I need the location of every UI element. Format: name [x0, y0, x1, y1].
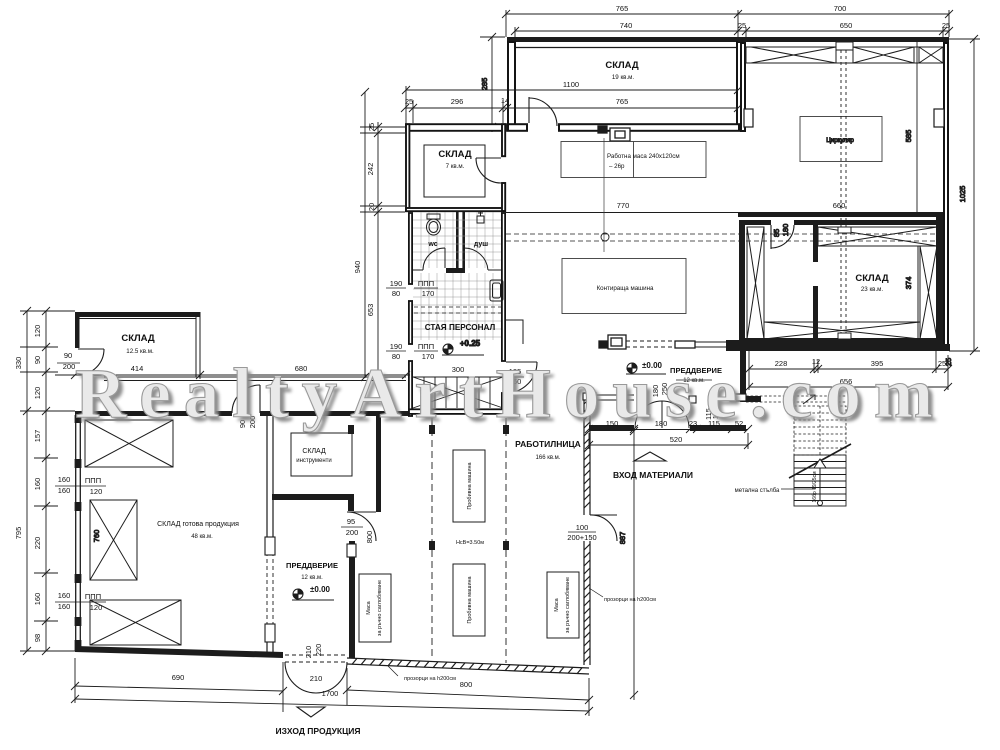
svg-text:СКЛАД: СКЛАД: [855, 273, 889, 284]
svg-text:120: 120: [90, 603, 103, 612]
svg-text:220: 220: [33, 537, 42, 550]
svg-text:95: 95: [347, 517, 355, 526]
svg-text:ППП: ППП: [418, 279, 434, 288]
svg-text:160: 160: [33, 478, 42, 491]
svg-text:ППП: ППП: [85, 476, 101, 485]
dims under vestibule door: [585, 425, 752, 449]
svg-text:1700: 1700: [322, 689, 339, 698]
svg-text:+0.25: +0.25: [460, 339, 481, 348]
room SKLAD7 walls: [406, 124, 506, 211]
big opening bottom staff room: [413, 377, 503, 408]
dim 285 vertical: [480, 33, 505, 132]
svg-text:650: 650: [840, 21, 853, 30]
svg-text:Работна маса 240х120см: Работна маса 240х120см: [607, 153, 680, 160]
svg-text:200: 200: [346, 528, 359, 537]
door sklad23: [771, 225, 794, 249]
svg-text:770: 770: [617, 201, 630, 210]
svg-text:200+150: 200+150: [567, 533, 596, 542]
svg-text:166 кв.м.: 166 кв.м.: [536, 455, 561, 461]
svg-text:330: 330: [14, 357, 23, 370]
svg-text:80: 80: [392, 289, 400, 298]
svg-text:25: 25: [738, 21, 746, 30]
svg-text:wc: wc: [427, 241, 437, 248]
hall sw step: [506, 320, 523, 344]
svg-text:16бр 19/25см: 16бр 19/25см: [812, 471, 818, 503]
svg-text:±0.00: ±0.00: [310, 585, 331, 594]
dims under sklad23: [745, 351, 952, 391]
corridor bottom thick wall: [75, 411, 408, 416]
door sklad19: [529, 97, 557, 126]
right building top walls: [738, 37, 949, 217]
door tools room: [347, 512, 376, 541]
svg-text:ВХОД МАТЕРИАЛИ: ВХОД МАТЕРИАЛИ: [613, 470, 693, 480]
svg-text:за ръчно саглобяване: за ръчно саглобяване: [565, 577, 571, 633]
big store room walls: [76, 416, 81, 650]
svg-text:157: 157: [33, 430, 42, 443]
dim 1025: [949, 35, 980, 355]
svg-text:РАБОТИЛНИЦА: РАБОТИЛНИЦА: [515, 439, 581, 449]
exit doorway bottom: [285, 655, 347, 662]
svg-text:RealtyArtHouse.com: RealtyArtHouse.com: [75, 355, 933, 433]
room SKLAD19 walls: [507, 37, 740, 42]
dim 585: [916, 42, 918, 212]
svg-text:25: 25: [938, 359, 946, 368]
svg-text:Маса: Маса: [366, 600, 372, 614]
svg-text:Пробивна машина: Пробивна машина: [467, 461, 473, 509]
svg-text:ППП: ППП: [418, 342, 434, 351]
svg-text:800: 800: [365, 531, 374, 544]
svg-text:90: 90: [64, 351, 72, 360]
workshop right door 100: [590, 515, 617, 541]
svg-text:1025: 1025: [958, 186, 967, 203]
svg-text:СТАЯ ПЕРСОНАЛ: СТАЯ ПЕРСОНАЛ: [425, 323, 496, 332]
room SKLAD12.5: [75, 312, 200, 348]
svg-text:887: 887: [618, 532, 627, 545]
svg-text:760: 760: [92, 530, 101, 543]
SKLAD23 block: [726, 220, 950, 351]
svg-text:160: 160: [58, 602, 71, 611]
hall center axis dashed: [603, 138, 605, 252]
svg-text:765: 765: [616, 4, 629, 13]
svg-text:ИЗХОД ПРОДУКЦИЯ: ИЗХОД ПРОДУКЦИЯ: [275, 726, 360, 736]
svg-text:374: 374: [904, 277, 913, 290]
door sklad12.5: [78, 349, 104, 375]
X columns sklad23: [747, 227, 937, 339]
svg-text:160: 160: [58, 591, 71, 600]
svg-text:120: 120: [33, 387, 42, 400]
corridor dim line 414 680: [55, 360, 410, 379]
svg-text:653: 653: [366, 304, 375, 317]
svg-text:25: 25: [367, 123, 376, 131]
bottom dims: [71, 658, 593, 716]
tools room: [272, 416, 381, 512]
top dimension row: [502, 10, 953, 42]
svg-text:765: 765: [616, 97, 629, 106]
window note texts: [404, 597, 656, 682]
svg-text:25: 25: [942, 21, 950, 30]
window dim labels PPP 170: [390, 279, 435, 361]
vestibule right walls: [740, 351, 761, 402]
svg-text:190: 190: [390, 342, 403, 351]
svg-text:296: 296: [451, 97, 464, 106]
svg-text:100: 100: [576, 523, 589, 532]
svg-text:700: 700: [834, 4, 847, 13]
svg-text:12 кв.м.: 12 кв.м.: [301, 575, 323, 581]
workshop top wall to vestibule: [595, 395, 634, 400]
svg-text:800: 800: [460, 680, 473, 689]
wc fixtures: [427, 212, 504, 301]
svg-text:220: 220: [314, 644, 323, 657]
X storage boxes: [85, 420, 181, 645]
svg-text:СКЛАД: СКЛАД: [302, 448, 326, 455]
svg-text:СКЛАД: СКЛАД: [121, 333, 155, 344]
center dashed axis right building: [841, 50, 846, 338]
svg-text:160: 160: [33, 593, 42, 606]
svg-text:СКЛАД: СКЛАД: [438, 149, 472, 160]
machine symbols on wall: [598, 126, 630, 141]
svg-text:170: 170: [422, 289, 435, 298]
right vestibule labels: [642, 361, 722, 384]
svg-text:98: 98: [33, 634, 42, 642]
svg-text:160: 160: [58, 486, 71, 495]
exit arrow bottom: [297, 707, 325, 717]
machine tables workshop: [359, 450, 579, 642]
stairs: [746, 396, 846, 455]
svg-text:14: 14: [501, 96, 509, 105]
workshop room: [456, 439, 581, 546]
svg-text:за ръчно саглобяване: за ръчно саглобяване: [377, 580, 383, 636]
workshop dashed axes: [432, 418, 506, 663]
dashed beam lines staff room: [414, 307, 501, 313]
svg-text:Контираща машина: Контираща машина: [597, 285, 654, 292]
svg-text:СКЛАД готова продукция: СКЛАД готова продукция: [157, 521, 239, 528]
workshop right wall with windows: [583, 393, 596, 665]
svg-text:прозорци на h200см: прозорци на h200см: [604, 597, 656, 603]
conveyor machines bottom of hall: [599, 335, 626, 349]
door corridor to tools room: [232, 385, 260, 413]
svg-text:20: 20: [367, 203, 376, 211]
svg-text:285: 285: [480, 78, 489, 91]
svg-text:23 кв.м.: 23 кв.м.: [861, 286, 884, 293]
svg-text:7 кв.м.: 7 кв.м.: [446, 163, 465, 170]
svg-text:120: 120: [90, 487, 103, 496]
svg-text:12.5 кв.м.: 12.5 кв.м.: [126, 348, 154, 355]
svg-text:690: 690: [172, 673, 185, 682]
svg-text:НсВ=3.50м: НсВ=3.50м: [456, 540, 484, 546]
left outer dim column: [20, 307, 75, 655]
svg-text:585: 585: [904, 130, 913, 143]
svg-text:160: 160: [58, 475, 71, 484]
svg-text:190: 190: [390, 279, 403, 288]
svg-text:душ: душ: [474, 241, 488, 248]
svg-text:Пробивна машина: Пробивна машина: [467, 575, 473, 623]
svg-text:прозорци на h200см: прозорци на h200см: [404, 676, 456, 682]
svg-text:85: 85: [772, 229, 781, 237]
workshop south sloped wall: [347, 658, 589, 674]
corridor thin walls: [104, 377, 406, 381]
svg-text:СКЛАД: СКЛАД: [605, 60, 639, 71]
dim 1100: [401, 86, 742, 127]
wc floor tile grid: [413, 212, 501, 340]
dim 887: [633, 431, 635, 700]
window band with X top: [744, 42, 944, 127]
svg-text:1100: 1100: [563, 80, 579, 89]
svg-text:метална стълба: метална стълба: [735, 488, 780, 494]
level mark +0.25: [442, 344, 484, 355]
dim labels top: [616, 4, 950, 30]
left vestibule: [349, 541, 355, 658]
double swing door 180: [635, 401, 689, 428]
entry arrow: [634, 452, 666, 461]
svg-text:Циркуляр: Циркуляр: [826, 137, 854, 144]
svg-text:120: 120: [33, 325, 42, 338]
svg-text:210: 210: [310, 674, 323, 683]
wc doors: [413, 248, 501, 270]
svg-text:Маса: Маса: [554, 597, 560, 611]
svg-text:660: 660: [833, 201, 846, 210]
svg-text:– 26р: – 26р: [609, 163, 625, 170]
svg-text:242: 242: [366, 163, 375, 176]
work hall center dashed tables: [561, 142, 706, 314]
dim 770 and 660 line: [506, 212, 738, 214]
right wall of big store room (to vestibule): [267, 416, 273, 652]
tsirkular dashed machine: [800, 117, 882, 162]
south wall of hall / vestibule top: [675, 341, 726, 348]
door staff to vestibule: [506, 362, 537, 393]
svg-text:19 кв.м.: 19 кв.м.: [612, 74, 635, 81]
svg-text:740: 740: [620, 21, 633, 30]
svg-text:ППП: ППП: [85, 592, 101, 601]
svg-text:ПРЕДДВЕРИЕ: ПРЕДДВЕРИЕ: [286, 561, 338, 570]
svg-text:210: 210: [304, 646, 313, 659]
svg-text:48 кв.м.: 48 кв.м.: [191, 534, 213, 540]
svg-text:90: 90: [33, 356, 42, 364]
svg-text:25: 25: [405, 97, 413, 106]
svg-text:940: 940: [353, 261, 362, 274]
left vertical dims 940 653 242: [360, 88, 405, 381]
svg-text:инструменти: инструменти: [296, 458, 332, 464]
staff room block walls: [409, 213, 505, 416]
door sklad7: [476, 158, 501, 183]
svg-text:795: 795: [14, 527, 23, 540]
